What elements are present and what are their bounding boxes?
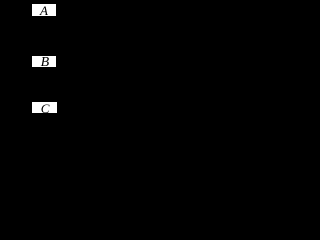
node B box [32,56,56,68]
node C box [32,102,57,113]
node A label [40,4,48,17]
node A box [32,4,56,16]
node C label [41,102,50,115]
node B label [41,56,50,70]
